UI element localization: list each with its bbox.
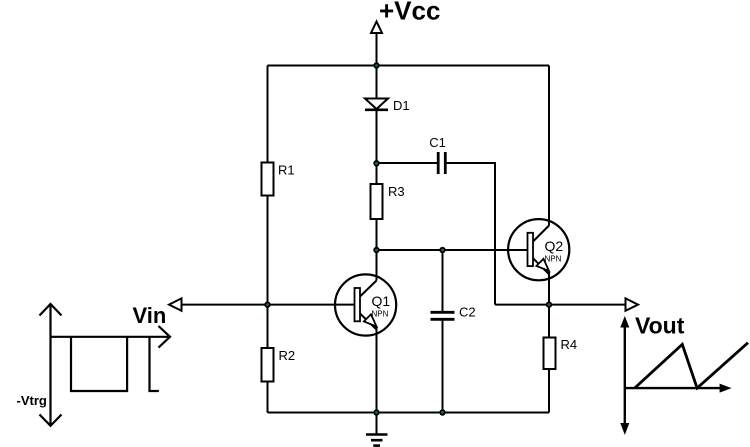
svg-text:R3: R3 (388, 184, 405, 199)
svg-text:NPN: NPN (545, 255, 562, 264)
svg-text:R2: R2 (279, 348, 296, 363)
svg-text:D1: D1 (393, 98, 410, 113)
svg-text:Q1: Q1 (372, 293, 391, 309)
svg-text:Vin: Vin (133, 303, 167, 328)
svg-text:-Vtrg: -Vtrg (17, 393, 47, 408)
svg-text:R1: R1 (278, 163, 295, 178)
svg-text:NPN: NPN (372, 310, 389, 319)
svg-text:C2: C2 (459, 305, 476, 320)
svg-text:C1: C1 (429, 135, 446, 150)
svg-text:R4: R4 (561, 337, 578, 352)
svg-text:Vout: Vout (635, 313, 685, 339)
svg-text:Q2: Q2 (545, 238, 564, 254)
svg-text:+Vcc: +Vcc (379, 0, 440, 26)
